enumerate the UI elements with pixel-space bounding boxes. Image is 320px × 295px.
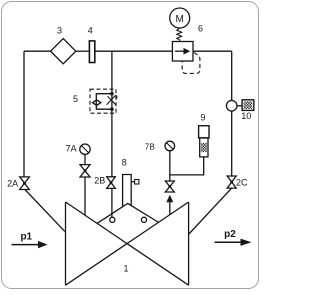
vessel port right bbox=[141, 217, 146, 222]
flow arrow up on 7B line bbox=[166, 195, 173, 203]
svg-text:2A: 2A bbox=[7, 178, 18, 188]
wire connector to 10 box bbox=[237, 105, 242, 107]
svg-text:3: 3 bbox=[57, 26, 62, 36]
component 5 bypass loop wire bbox=[96, 94, 112, 110]
vessel port left bbox=[110, 217, 115, 222]
wire segment C bbox=[95, 50, 173, 52]
component 4 (inline element) bbox=[89, 41, 94, 63]
filter 3 (diamond) bbox=[51, 39, 76, 64]
svg-text:10: 10 bbox=[241, 111, 251, 121]
svg-text:8: 8 bbox=[122, 158, 127, 168]
component 10 box bbox=[242, 100, 254, 111]
valve 2C bbox=[227, 176, 236, 188]
svg-text:2C: 2C bbox=[236, 177, 248, 187]
wire top horizontal segment A bbox=[24, 50, 51, 52]
svg-text:p2: p2 bbox=[224, 229, 236, 240]
gauge 7B bbox=[165, 141, 175, 151]
check valve (diamond) in 5 bbox=[93, 100, 101, 106]
junction node bottom of 5 bbox=[110, 107, 114, 111]
wire from 9 joining 7B line bbox=[170, 157, 204, 175]
pump drain dashed line bbox=[182, 53, 200, 74]
valve under 7A bbox=[80, 165, 90, 177]
wire 2B to vessel port bbox=[111, 188, 113, 217]
gauge 7A bbox=[80, 144, 90, 154]
vessel 1 diagonal TL-BR bbox=[66, 202, 189, 285]
svg-text:5: 5 bbox=[73, 94, 78, 104]
component 5 dashed enclosure bbox=[90, 89, 116, 113]
svg-text:p1: p1 bbox=[20, 231, 32, 242]
wire segment D pump to right bbox=[193, 50, 232, 52]
valve 2B bbox=[107, 177, 116, 189]
svg-text:9: 9 bbox=[200, 113, 205, 123]
wire 2C to vessel bbox=[189, 188, 232, 234]
svg-text:2B: 2B bbox=[94, 176, 105, 186]
svg-text:1: 1 bbox=[123, 264, 128, 274]
shaft spring bbox=[177, 28, 182, 42]
wire gauge 7B down bbox=[169, 151, 171, 181]
component 10 (circle sensor) bbox=[226, 101, 237, 112]
svg-text:7B: 7B bbox=[145, 142, 156, 151]
wire valve 7A to vessel bbox=[84, 177, 86, 215]
vessel 1 left edge bbox=[65, 202, 67, 285]
arrow p2 bbox=[215, 241, 242, 243]
wire right vertical lower bbox=[231, 111, 233, 176]
svg-text:M: M bbox=[176, 14, 184, 25]
throttle valve in 5 bbox=[108, 96, 116, 104]
junction node top of 5 bbox=[110, 92, 114, 96]
probe side stub bbox=[131, 181, 134, 183]
pump 6 bbox=[172, 42, 193, 62]
wire right vertical upper bbox=[231, 51, 233, 100]
wire left vertical supply bbox=[23, 51, 25, 177]
motor M bbox=[170, 8, 190, 28]
vessel 1 lid edges bbox=[97, 203, 159, 223]
wire gauge 7A to valve bbox=[84, 154, 86, 164]
component 8 (probe) bbox=[123, 175, 132, 207]
branch wire to component 5 and valve 2B bbox=[111, 51, 113, 177]
vessel 1 diagonal TR-BL bbox=[66, 202, 189, 285]
svg-text:7A: 7A bbox=[66, 143, 77, 153]
svg-text:6: 6 bbox=[198, 24, 203, 34]
wire 7B line to vessel bbox=[169, 201, 171, 215]
wire segment B bbox=[76, 50, 90, 52]
arrow p1 bbox=[12, 244, 39, 246]
probe side connector box bbox=[135, 180, 139, 185]
valve under 7B bbox=[165, 181, 174, 192]
svg-text:4: 4 bbox=[88, 26, 93, 36]
valve 2A bbox=[20, 177, 30, 190]
vessel 1 right edge bbox=[188, 202, 190, 285]
wire 2A to vessel bbox=[25, 190, 65, 232]
component 9 (cartridge) bbox=[199, 126, 209, 138]
